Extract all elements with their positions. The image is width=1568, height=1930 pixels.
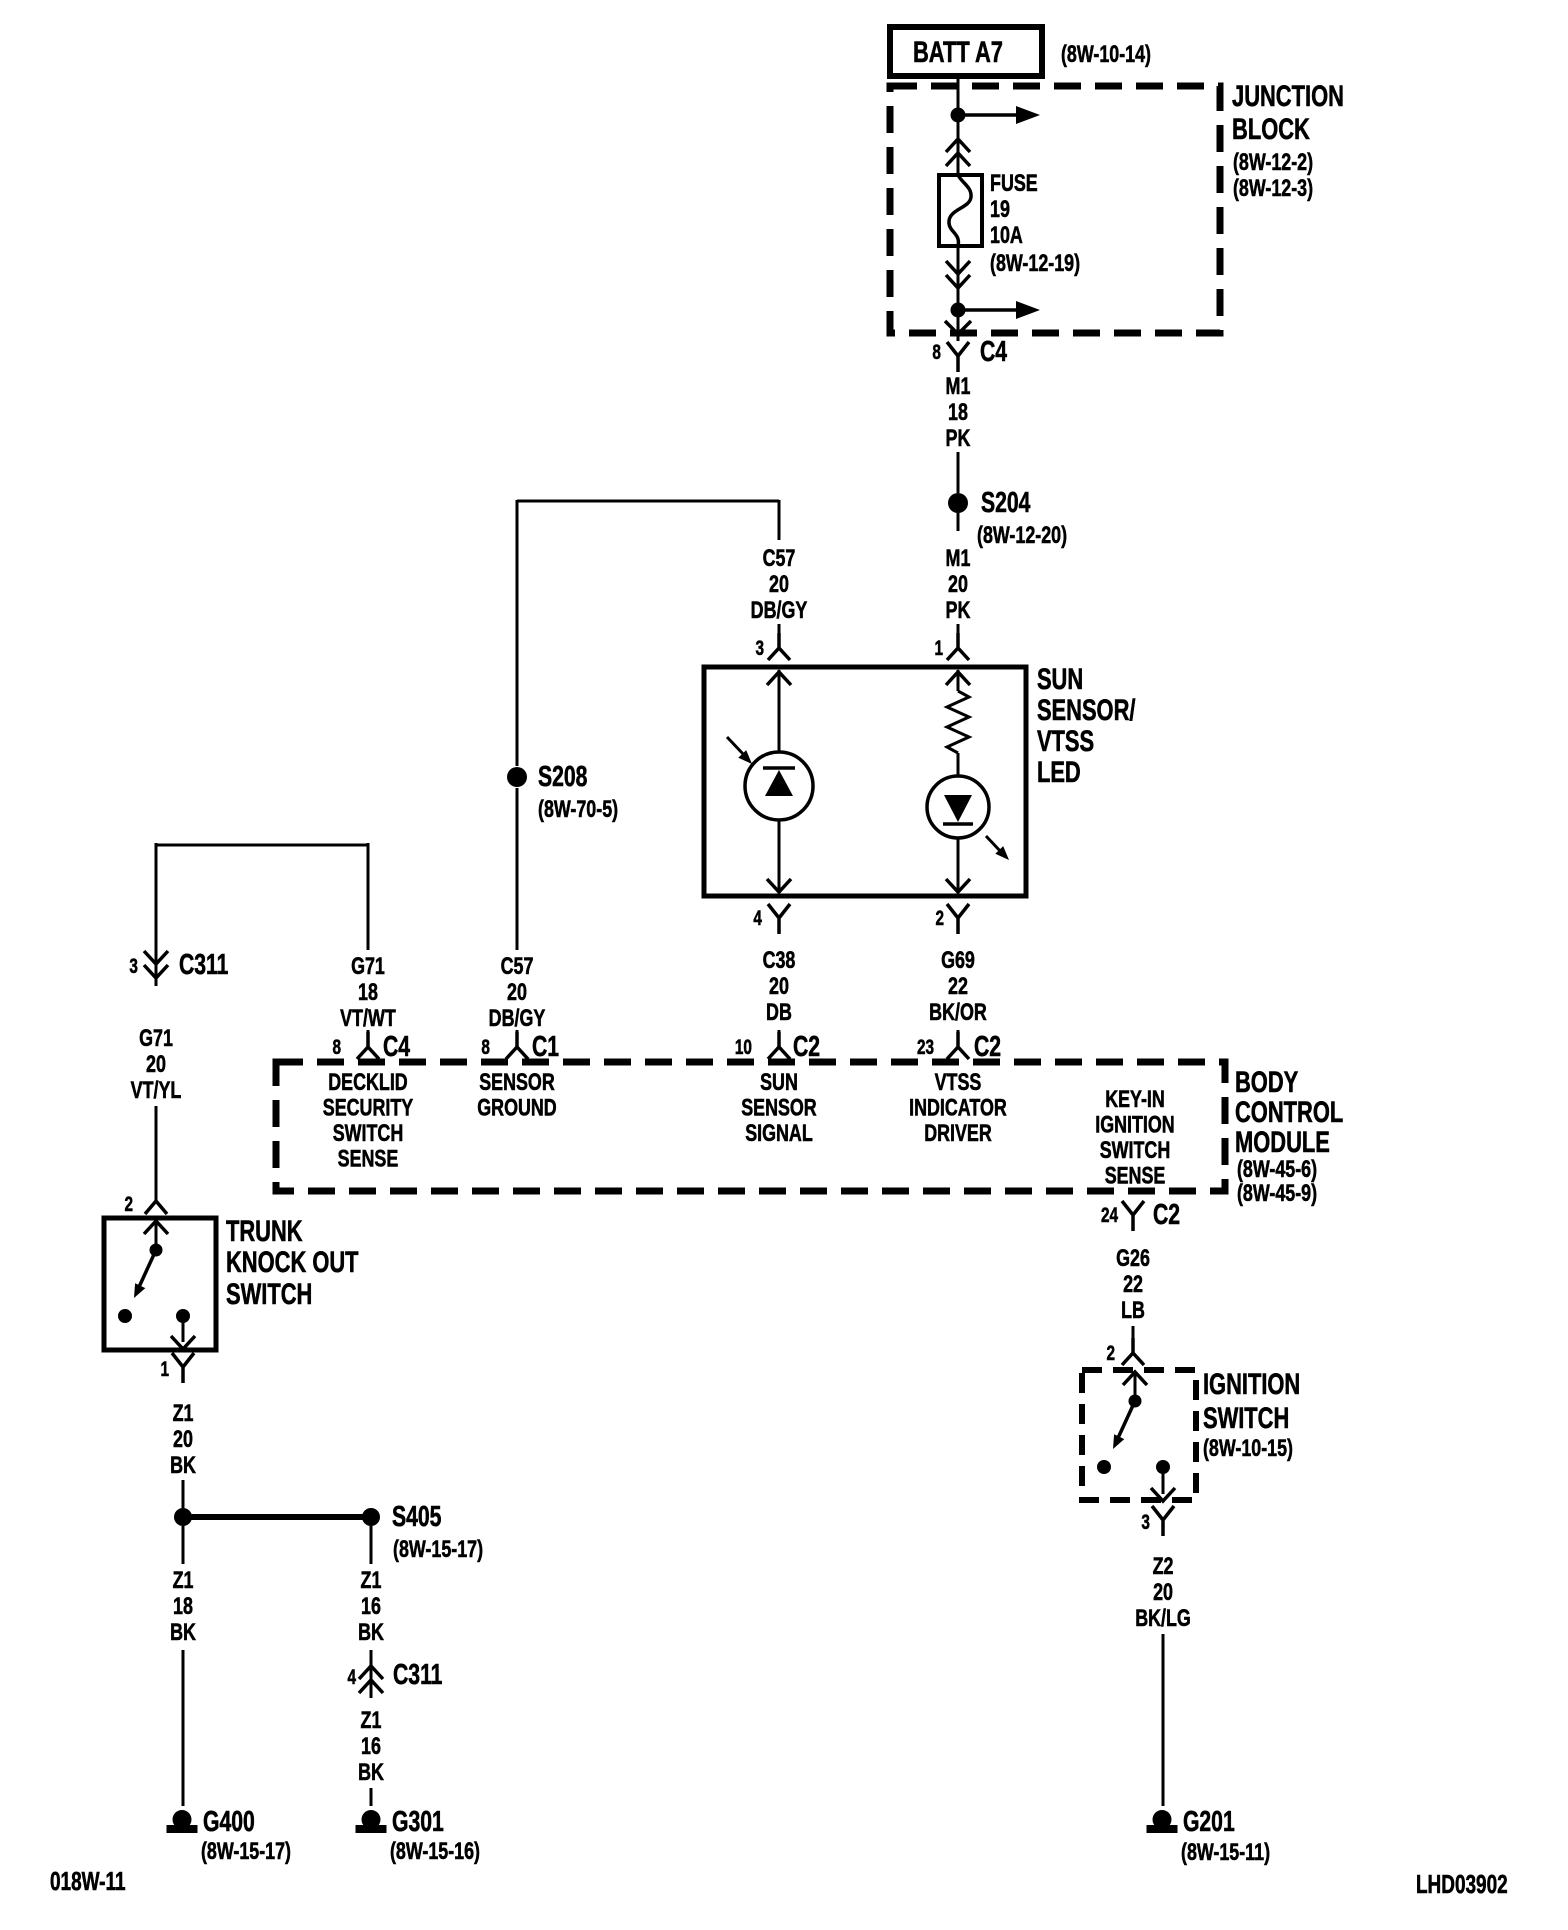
- connector C4 pin 8 (BCM decklid sense): [357, 1032, 379, 1059]
- svg-text:2: 2: [936, 906, 945, 930]
- svg-text:IGNITION: IGNITION: [1203, 1367, 1300, 1401]
- BCM pin function: VTSS indicator driver: [909, 1068, 1007, 1146]
- svg-text:C38: C38: [763, 946, 796, 973]
- body control module (dashed box): [276, 1062, 1225, 1191]
- wire: M1 18 PK segment: [957, 452, 960, 493]
- wire label G26 22 LB: [1116, 1244, 1150, 1323]
- label G400: [203, 1806, 255, 1838]
- svg-text:16: 16: [361, 1592, 381, 1619]
- label G201: [1183, 1806, 1235, 1838]
- svg-text:LED: LED: [1037, 755, 1081, 789]
- label (8W-70-5): [538, 795, 618, 822]
- label S204: [981, 487, 1030, 519]
- wire: C57 to pin 3: [778, 624, 781, 634]
- wire: Z1 20 BK: [182, 1480, 185, 1508]
- svg-text:20: 20: [507, 978, 527, 1005]
- svg-text:IGNITION: IGNITION: [1095, 1111, 1174, 1138]
- svg-text:G69: G69: [941, 946, 975, 973]
- connector pin 2 (trunk knock out switch): [145, 1201, 167, 1214]
- pin number 24 + label C2 (key-in): [1101, 1199, 1180, 1231]
- photodiode (sun sensor): [727, 737, 813, 820]
- svg-text:G71: G71: [139, 1024, 173, 1051]
- svg-text:SWITCH: SWITCH: [333, 1119, 403, 1146]
- label C4 (junction block): [980, 336, 1007, 368]
- wire label C57 20 DB/GY (upper): [751, 544, 808, 623]
- wire: G71 20 VT/YL down to trunk switch: [155, 1106, 158, 1200]
- label IGNITION SWITCH: [1203, 1367, 1300, 1462]
- svg-text:PK: PK: [946, 596, 971, 623]
- svg-text:Z1: Z1: [173, 1399, 194, 1426]
- wire label G71 18 VT/WT: [340, 952, 396, 1031]
- wire label Z1 16 BK (lower): [358, 1706, 384, 1785]
- pin number 2 (ignition switch): [1106, 1341, 1115, 1365]
- svg-text:22: 22: [1123, 1270, 1143, 1297]
- svg-text:SUN: SUN: [760, 1068, 798, 1095]
- label BODY CONTROL MODULE: [1235, 1065, 1343, 1207]
- svg-text:SWITCH: SWITCH: [1203, 1401, 1289, 1435]
- svg-text:(8W-70-5): (8W-70-5): [538, 795, 618, 822]
- svg-text:JUNCTION: JUNCTION: [1232, 79, 1344, 113]
- pin number 8 + label C1 (BCM): [481, 1031, 559, 1063]
- svg-text:8: 8: [932, 340, 941, 364]
- wire label Z1 18 BK: [170, 1566, 196, 1645]
- svg-text:Z1: Z1: [361, 1706, 382, 1733]
- svg-text:C57: C57: [763, 544, 796, 571]
- svg-text:(8W-15-17): (8W-15-17): [393, 1535, 483, 1562]
- svg-text:19: 19: [990, 195, 1010, 222]
- svg-text:3: 3: [1141, 1510, 1150, 1534]
- pin number 4 + label C311 (lower): [347, 1659, 442, 1691]
- svg-text:C2: C2: [793, 1031, 820, 1063]
- label (8W-15-16) (G301): [390, 1837, 480, 1864]
- pin number 3 + label C311 (upper): [129, 949, 228, 981]
- label S208: [538, 761, 587, 793]
- svg-text:VTSS: VTSS: [935, 1068, 982, 1095]
- pin number 1 (trunk switch): [160, 1357, 169, 1381]
- label (8W-15-17) (G400): [201, 1837, 291, 1864]
- svg-text:G71: G71: [351, 952, 385, 979]
- svg-text:20: 20: [1153, 1578, 1173, 1605]
- splice S208: [507, 767, 527, 950]
- connector pin 1 (trunk knock out switch): [172, 1353, 194, 1383]
- BCM pin function: sensor ground: [477, 1068, 556, 1121]
- wire: M1 20 PK to sun sensor pin 1: [957, 624, 960, 634]
- ignition switch box (dashed): [1082, 1370, 1196, 1500]
- svg-text:(8W-12-20): (8W-12-20): [977, 521, 1067, 548]
- wire: S208 branch (up and over to sun sensor pin 3): [517, 500, 779, 766]
- svg-text:G201: G201: [1183, 1806, 1235, 1838]
- wire: Z1 18 BK to G400: [182, 1650, 185, 1806]
- svg-text:INDICATOR: INDICATOR: [909, 1094, 1007, 1121]
- wire label G71 20 VT/YL: [131, 1024, 182, 1103]
- wire: sun sensor left branch exit: [767, 820, 791, 893]
- svg-text:PK: PK: [946, 424, 971, 451]
- svg-text:SUN: SUN: [1037, 662, 1083, 696]
- fuse 19 10A: [939, 175, 982, 246]
- connector C4 pin 8 (junction block): [947, 342, 969, 372]
- connector pin 3 (ignition switch): [1152, 1506, 1174, 1536]
- svg-text:2: 2: [124, 1192, 133, 1216]
- splice: Z1 junction: [174, 1508, 192, 1526]
- svg-text:(8W-10-15): (8W-10-15): [1203, 1434, 1293, 1461]
- BCM pin function: sun sensor signal: [741, 1068, 817, 1146]
- wire label Z1 20 BK: [170, 1399, 196, 1478]
- connector pin 2 (sun sensor): [947, 904, 969, 934]
- pin number 10 + label C2 (BCM): [735, 1031, 820, 1063]
- wire: feed arrow right (lower): [964, 301, 1040, 319]
- wire: left bracket to C311 and G71: [156, 843, 368, 950]
- connector pin 2 (ignition switch): [1122, 1338, 1144, 1365]
- LED (VTSS indicator): [927, 776, 1009, 860]
- ground G301: [356, 1810, 387, 1833]
- svg-text:G301: G301: [392, 1806, 444, 1838]
- svg-text:S208: S208: [538, 761, 587, 793]
- svg-text:10A: 10A: [990, 221, 1023, 248]
- svg-text:M1: M1: [946, 372, 971, 399]
- svg-text:GROUND: GROUND: [477, 1094, 556, 1121]
- svg-text:20: 20: [948, 570, 968, 597]
- pin number 1 (sun sensor): [934, 636, 943, 660]
- svg-text:4: 4: [347, 1665, 356, 1689]
- wire: sun sensor left branch entry: [767, 670, 791, 752]
- svg-text:C4: C4: [980, 336, 1007, 368]
- wire: fuse to lower splice: [957, 246, 960, 341]
- svg-text:M1: M1: [946, 544, 971, 571]
- svg-text:Z2: Z2: [1153, 1552, 1174, 1579]
- svg-text:VTSS: VTSS: [1037, 724, 1094, 758]
- svg-text:20: 20: [769, 972, 789, 999]
- svg-text:(8W-12-3): (8W-12-3): [1233, 174, 1313, 201]
- svg-text:Z1: Z1: [361, 1566, 382, 1593]
- pin number 8 (C4 junction block): [932, 340, 941, 364]
- connector C2 pin 24 (BCM key-in sense): [1122, 1201, 1144, 1231]
- svg-text:BK: BK: [170, 1618, 196, 1645]
- svg-text:SECURITY: SECURITY: [323, 1094, 413, 1121]
- svg-text:DB/GY: DB/GY: [751, 596, 808, 623]
- svg-text:BK: BK: [358, 1618, 384, 1645]
- label FUSE 19 10A: [990, 169, 1080, 276]
- wire: Z1 16 BK to G301: [370, 1788, 373, 1806]
- svg-text:BK: BK: [170, 1451, 196, 1478]
- wire label M1 18 PK: [946, 372, 971, 451]
- svg-text:20: 20: [769, 570, 789, 597]
- svg-text:SENSE: SENSE: [338, 1145, 399, 1172]
- resistor (sun sensor right branch): [946, 670, 970, 776]
- svg-text:18: 18: [173, 1592, 193, 1619]
- svg-text:Z1: Z1: [173, 1566, 194, 1593]
- svg-text:LHD03902: LHD03902: [1416, 1869, 1508, 1899]
- svg-text:C57: C57: [501, 952, 534, 979]
- svg-text:4: 4: [753, 906, 762, 930]
- svg-text:(8W-15-17): (8W-15-17): [201, 1837, 291, 1864]
- svg-text:SENSE: SENSE: [1105, 1162, 1166, 1189]
- switch (trunk knock out): [118, 1220, 195, 1349]
- svg-text:KEY-IN: KEY-IN: [1105, 1085, 1165, 1112]
- svg-text:SIGNAL: SIGNAL: [745, 1119, 813, 1146]
- svg-text:DRIVER: DRIVER: [924, 1119, 992, 1146]
- splice S405: [362, 1508, 380, 1526]
- svg-text:22: 22: [948, 972, 968, 999]
- wire stubs into BCM connectors: [368, 1030, 958, 1033]
- junction block (dashed box): [890, 86, 1220, 333]
- svg-text:S204: S204: [981, 487, 1030, 519]
- svg-text:S405: S405: [392, 1501, 441, 1533]
- wire label Z1 16 BK (upper): [358, 1566, 384, 1645]
- connector arrows (double chevron down): [946, 261, 970, 288]
- wire: Z1 18 BK stub: [182, 1526, 185, 1564]
- label S405: [392, 1501, 441, 1533]
- connector C2 pin 10 (BCM sun sensor signal): [768, 1032, 790, 1059]
- svg-text:(8W-15-16): (8W-15-16): [390, 1837, 480, 1864]
- label (8W-10-14): [1061, 40, 1151, 67]
- pin number 3 (ignition switch): [1141, 1510, 1150, 1534]
- label G301: [392, 1806, 444, 1838]
- svg-text:TRUNK: TRUNK: [226, 1214, 303, 1248]
- wire label G69 22 BK/OR: [929, 946, 987, 1025]
- label SUN SENSOR/ VTSS LED: [1037, 662, 1136, 789]
- node: feed splice lower: [951, 303, 966, 318]
- ground G201: [1147, 1810, 1178, 1833]
- svg-text:SENSOR: SENSOR: [479, 1068, 555, 1095]
- wire: sun sensor right branch exit: [946, 838, 970, 893]
- svg-text:BLOCK: BLOCK: [1232, 112, 1310, 146]
- battery feed box BATT A7: [890, 27, 1042, 76]
- svg-text:3: 3: [755, 636, 764, 660]
- connector C311 pin 4 (inline, up): [359, 1650, 383, 1698]
- svg-text:(8W-45-9): (8W-45-9): [1237, 1179, 1317, 1206]
- wire: G26 22 LB: [1132, 1326, 1135, 1340]
- junction block exit chevron: [945, 321, 971, 334]
- sheet number 018W-11: [50, 1866, 126, 1896]
- label JUNCTION BLOCK: [1232, 79, 1344, 202]
- wire label Z2 20 BK/LG: [1135, 1552, 1191, 1631]
- svg-text:C311: C311: [393, 1659, 442, 1691]
- svg-text:C311: C311: [179, 949, 228, 981]
- label (8W-15-11) (G201): [1181, 1838, 1270, 1865]
- splice S204: [948, 493, 968, 531]
- connector pin 1 (sun sensor): [947, 633, 969, 660]
- pin number 2 (sun sensor): [936, 906, 945, 930]
- svg-text:23: 23: [917, 1035, 934, 1059]
- label (8W-12-20): [977, 521, 1067, 548]
- wire label M1 20 PK: [946, 544, 971, 623]
- svg-text:1: 1: [160, 1357, 169, 1381]
- svg-text:(8W-10-14): (8W-10-14): [1061, 40, 1151, 67]
- wire: feed arrow right (upper): [964, 106, 1040, 124]
- svg-text:(8W-12-2): (8W-12-2): [1233, 148, 1313, 175]
- label BATT A7: [913, 35, 1003, 69]
- svg-text:18: 18: [948, 398, 968, 425]
- svg-text:DB/GY: DB/GY: [489, 1004, 546, 1031]
- pin number 2 (trunk switch): [124, 1192, 133, 1216]
- BCM pin function: decklid security switch sense: [323, 1068, 413, 1172]
- svg-text:BK/LG: BK/LG: [1135, 1604, 1191, 1631]
- svg-text:SENSOR: SENSOR: [741, 1094, 817, 1121]
- trunk knock out switch box: [104, 1218, 216, 1350]
- connector pin 3 (sun sensor): [768, 633, 790, 660]
- svg-text:VT/WT: VT/WT: [340, 1004, 396, 1031]
- svg-text:BATT A7: BATT A7: [913, 35, 1003, 69]
- svg-text:BK: BK: [358, 1758, 384, 1785]
- svg-text:VT/YL: VT/YL: [131, 1076, 182, 1103]
- svg-text:C1: C1: [532, 1031, 559, 1063]
- svg-text:1: 1: [934, 636, 943, 660]
- svg-text:C2: C2: [1153, 1199, 1180, 1231]
- svg-text:(8W-12-19): (8W-12-19): [990, 249, 1080, 276]
- pin number 23 + label C2 (BCM): [917, 1031, 1001, 1063]
- wire: Z2 20 BK/LG to G201: [1162, 1634, 1165, 1806]
- svg-text:8: 8: [481, 1035, 490, 1059]
- svg-text:20: 20: [173, 1425, 193, 1452]
- svg-text:8: 8: [332, 1035, 341, 1059]
- svg-text:DB: DB: [766, 998, 792, 1025]
- connector pin 4 (sun sensor): [768, 904, 790, 934]
- label (8W-15-17) (S405): [393, 1535, 483, 1562]
- connector C2 pin 23 (BCM VTSS driver): [947, 1032, 969, 1059]
- svg-text:10: 10: [735, 1035, 752, 1059]
- svg-text:SENSOR/: SENSOR/: [1037, 693, 1136, 727]
- svg-text:FUSE: FUSE: [990, 169, 1038, 196]
- svg-text:16: 16: [361, 1732, 381, 1759]
- svg-text:018W-11: 018W-11: [50, 1866, 126, 1896]
- svg-text:C4: C4: [383, 1031, 410, 1063]
- svg-text:20: 20: [146, 1050, 166, 1077]
- svg-text:(8W-15-11): (8W-15-11): [1181, 1838, 1270, 1865]
- connector C311 pin 3 (inline, down): [144, 948, 168, 986]
- svg-text:3: 3: [129, 954, 138, 978]
- svg-text:BK/OR: BK/OR: [929, 998, 987, 1025]
- connector arrows (double chevron up): [946, 139, 970, 166]
- svg-text:24: 24: [1101, 1203, 1119, 1227]
- connector C1 pin 8 (BCM sensor ground): [506, 1032, 528, 1059]
- svg-text:G26: G26: [1116, 1244, 1150, 1271]
- svg-text:2: 2: [1106, 1341, 1115, 1365]
- switch (ignition): [1097, 1371, 1175, 1501]
- svg-text:LB: LB: [1121, 1296, 1145, 1323]
- svg-text:KNOCK OUT: KNOCK OUT: [226, 1245, 359, 1279]
- node: feed splice upper: [951, 108, 966, 123]
- wire: Z1 16 BK stub (below S405): [370, 1526, 373, 1564]
- BCM pin function: key-in ignition switch sense: [1095, 1085, 1174, 1189]
- svg-text:18: 18: [358, 978, 378, 1005]
- svg-text:MODULE: MODULE: [1235, 1125, 1330, 1159]
- wire: to S405: [183, 1514, 371, 1520]
- pin number 3 (sun sensor): [755, 636, 764, 660]
- wire label C57 20 DB/GY (lower): [489, 952, 546, 1031]
- wire: BATT A7 down into junction block: [957, 77, 960, 176]
- pin number 8 + label C4 (BCM): [332, 1031, 410, 1063]
- label TRUNK KNOCK OUT SWITCH: [226, 1214, 359, 1311]
- drawing number LHD03902: [1416, 1869, 1508, 1899]
- ground G400: [167, 1810, 198, 1833]
- svg-text:SWITCH: SWITCH: [226, 1277, 312, 1311]
- svg-text:C2: C2: [974, 1031, 1001, 1063]
- svg-text:SWITCH: SWITCH: [1100, 1136, 1170, 1163]
- sun sensor / VTSS LED box: [704, 667, 1026, 896]
- svg-text:DECKLID: DECKLID: [328, 1068, 407, 1095]
- pin number 4 (sun sensor): [753, 906, 762, 930]
- svg-text:G400: G400: [203, 1806, 255, 1838]
- wire label C38 20 DB: [763, 946, 796, 1025]
